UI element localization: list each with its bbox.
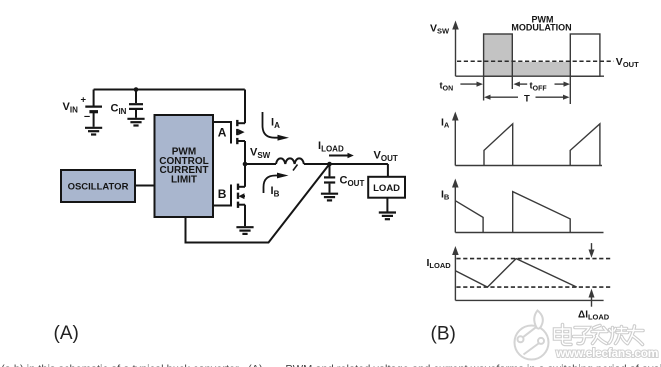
transistor B gate wire [213, 185, 231, 206]
arrow T right [536, 96, 565, 98]
arrow tOFF right [555, 83, 565, 85]
wire VOUT drop [387, 164, 389, 177]
graph2 baseline [455, 165, 602, 167]
graph1 ticks [484, 76, 571, 104]
block oscillator [61, 170, 135, 202]
wire load to ground [386, 198, 388, 212]
svg-text:–: – [84, 111, 90, 123]
svg-text:B: B [218, 187, 227, 201]
arrow tOFF left [519, 83, 528, 85]
svg-text:tOFF: tOFF [530, 81, 548, 93]
graph1 VSW axis [455, 29, 457, 77]
wire top rail [94, 89, 245, 91]
wire A source to VSW [244, 141, 246, 164]
transistor B channel [237, 184, 239, 208]
svg-text:A: A [218, 126, 227, 140]
watermark logo circle [515, 311, 549, 360]
svg-text:www.elecfans.com: www.elecfans.com [555, 346, 658, 360]
graph3 baseline [455, 232, 603, 234]
battery VIN [85, 107, 102, 127]
transistor A gate wire [213, 122, 231, 144]
svg-text:COUT: COUT [340, 175, 365, 189]
label U1 text [159, 147, 208, 186]
transistor A stubs [237, 123, 245, 141]
graph1 gray toff region [512, 62, 570, 76]
arrow IB curl [264, 176, 278, 194]
svg-text:VOUT: VOUT [616, 56, 639, 69]
graph1 pulse2 white [570, 34, 600, 76]
block U1 PWM control current limit [155, 115, 214, 217]
wire Cin drop [135, 90, 137, 104]
graph2 ramp1 [484, 124, 513, 166]
capacitor CIN [129, 104, 143, 118]
node VSW [243, 162, 248, 167]
node COUT junction [327, 162, 332, 167]
graph3 ramp1 [455, 201, 483, 233]
graph2 ramp2 [570, 124, 600, 166]
transistor B stubs [238, 187, 245, 205]
ground (B source) [236, 227, 253, 234]
svg-text:+: + [81, 95, 87, 106]
svg-text:(a,b) in this schematic of a t: (a,b) in this schematic of a typical buc… [1, 364, 239, 367]
svg-text:T: T [524, 93, 530, 104]
svg-text:LOAD: LOAD [373, 183, 400, 194]
arrow ripple bottom [591, 297, 593, 307]
wire B source to ground [244, 205, 246, 227]
graph3 ramp2 [513, 192, 571, 233]
graph4 wave [455, 259, 576, 288]
svg-text:tON: tON [440, 81, 454, 93]
svg-text:IB: IB [271, 185, 280, 199]
svg-text:ΔILOAD: ΔILOAD [578, 310, 610, 322]
wire oscillator to U1 [135, 185, 155, 187]
graph4 upper dashed [456, 258, 610, 260]
label PWM MODULATION [511, 14, 571, 32]
graph4 ILOAD axis [454, 254, 456, 300]
svg-text:LIMIT: LIMIT [171, 175, 197, 186]
arrow ripple top [591, 243, 593, 250]
inductor curl [293, 165, 298, 171]
svg-text:MODULATION: MODULATION [511, 23, 571, 33]
node top-rail junction [134, 87, 139, 92]
graph4 baseline [455, 299, 603, 301]
ground (COUT) [321, 194, 338, 201]
wire feedback diagonal [186, 164, 330, 243]
transistor A channel [236, 120, 238, 144]
wire A drain [244, 90, 246, 124]
ground (VIN) [85, 128, 102, 135]
svg-text:IA: IA [441, 117, 450, 130]
graph1 baseline [456, 75, 605, 77]
svg-text:IB: IB [441, 189, 450, 202]
arrow T left [490, 96, 519, 98]
svg-text:(A) —: (A) — [248, 364, 277, 367]
ground (load) [379, 213, 396, 220]
svg-text:(B): (B) [431, 324, 456, 345]
wire VSW to inductor [245, 163, 276, 165]
capacitor COUT [324, 164, 335, 193]
svg-text:IA: IA [271, 117, 280, 131]
arrow tON [460, 83, 477, 85]
svg-text:PWM and related voltage and cu: PWM and related voltage and current wave… [285, 364, 661, 367]
arrow IA curl [263, 112, 279, 138]
ground (CIN) [127, 119, 144, 126]
arrow ILOAD [329, 155, 349, 157]
graph3 IB axis [454, 187, 456, 233]
graph1 dashed vout line [457, 60, 614, 62]
inductor L1 [276, 158, 304, 164]
svg-text:VSW: VSW [250, 147, 271, 161]
wire Vin battery drop [93, 90, 95, 106]
transistor B arrow [238, 193, 244, 199]
block load [368, 177, 405, 198]
graph4 lower dashed [456, 286, 610, 288]
svg-text:CIN: CIN [111, 103, 127, 117]
wire inductor to VOUT corner [304, 163, 388, 165]
wire B drain from VSW [244, 164, 246, 187]
svg-text:(A): (A) [54, 323, 79, 344]
graph1 pulse1 gray [484, 34, 513, 76]
svg-text:VSW: VSW [430, 23, 450, 36]
transistor A arrow [239, 129, 245, 135]
svg-text:VIN: VIN [63, 101, 79, 115]
svg-text:VOUT: VOUT [374, 150, 398, 164]
svg-text:ILOAD: ILOAD [318, 140, 344, 154]
graph2 IA axis [454, 120, 456, 166]
svg-text:ILOAD: ILOAD [427, 257, 452, 270]
svg-text:OSCILLATOR: OSCILLATOR [68, 182, 129, 193]
